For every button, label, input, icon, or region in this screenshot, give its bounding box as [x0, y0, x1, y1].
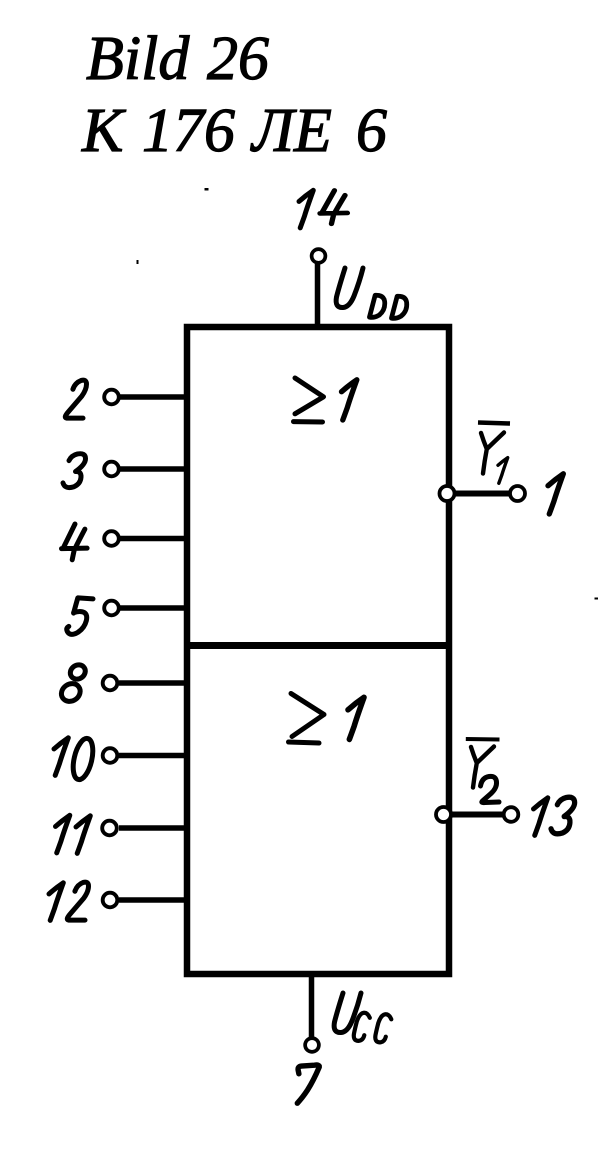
svg-text:Bild: Bild — [86, 25, 190, 93]
svg-text:ЛЕ: ЛЕ — [250, 97, 332, 165]
svg-text:26: 26 — [207, 25, 269, 93]
svg-text:К: К — [81, 97, 127, 165]
svg-text:176: 176 — [142, 97, 235, 165]
svg-text:6: 6 — [356, 97, 387, 165]
